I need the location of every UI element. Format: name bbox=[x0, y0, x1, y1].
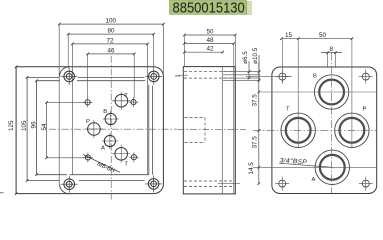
dim 8 (rear) bbox=[321, 51, 342, 67]
hidden cavity rect bbox=[185, 118, 206, 143]
dim 50 (side) bbox=[183, 34, 237, 66]
boss arc around bottom-left bolt hole bbox=[60, 184, 70, 194]
vertical face line right (plate right edge extended) bbox=[162, 24, 164, 76]
title highlight box shadow strip bbox=[247, 2, 252, 15]
port P rear bbox=[335, 113, 369, 147]
plate second outline bbox=[27, 77, 152, 180]
counterbore ext lines right bbox=[223, 72, 260, 81]
column centerline through B A bbox=[331, 53, 333, 194]
dim 15/50 (rear top) bbox=[280, 37, 353, 40]
corner hole bottom-left bbox=[275, 177, 289, 191]
side centerline bbox=[178, 129, 247, 131]
leader M6-6H bbox=[83, 155, 120, 173]
dim 42 (side) bbox=[183, 51, 224, 54]
svg-text:100: 100 bbox=[106, 18, 117, 25]
svg-text:B: B bbox=[313, 74, 317, 80]
svg-text:⌀6.5: ⌀6.5 bbox=[242, 51, 249, 64]
hole center tick top bbox=[179, 74, 188, 76]
svg-text:96: 96 bbox=[30, 121, 37, 129]
corner hole top-left bbox=[275, 70, 289, 84]
corner hole top-right bbox=[359, 70, 373, 84]
svg-text:P: P bbox=[86, 119, 90, 125]
port A rear bbox=[315, 150, 349, 184]
dim 48 (side) bbox=[183, 42, 235, 66]
vertical face line inner-left (72 ext) bbox=[71, 44, 73, 175]
leader 3/4 BSP bbox=[279, 163, 332, 167]
dim 46 bbox=[86, 53, 135, 98]
pilot hole bottom-right bbox=[129, 152, 139, 162]
vertical face line left bbox=[58, 24, 60, 184]
svg-text:48: 48 bbox=[207, 37, 215, 44]
left dim chain line (rear) bbox=[258, 62, 261, 185]
svg-text:3/4"BSP: 3/4"BSP bbox=[279, 157, 307, 166]
dim 54 line bbox=[45, 101, 84, 159]
bolt hole top-right bbox=[145, 68, 162, 85]
title highlight box bbox=[170, 1, 247, 15]
svg-text:50: 50 bbox=[207, 28, 215, 35]
bolt hole bottom-right bbox=[145, 175, 162, 192]
corner hole bottom-right bbox=[359, 177, 373, 191]
svg-text:⌀10.5: ⌀10.5 bbox=[252, 47, 259, 64]
plate third outline bbox=[37, 81, 149, 175]
ext line corner hole col bbox=[281, 39, 283, 83]
svg-text:T: T bbox=[286, 107, 290, 113]
svg-text:50: 50 bbox=[319, 32, 327, 39]
svg-text:A: A bbox=[101, 146, 105, 152]
right view outline bbox=[272, 67, 377, 194]
pilot hole top-right bbox=[129, 97, 139, 107]
dim line d10.5 bbox=[258, 55, 261, 82]
dim 100 bbox=[58, 23, 165, 26]
port T top bbox=[112, 92, 130, 110]
horizontal centerline bbox=[49, 128, 177, 130]
svg-text:A: A bbox=[312, 177, 316, 183]
svg-text:M6-6H: M6-6H bbox=[96, 161, 116, 175]
port B rear bbox=[314, 75, 348, 109]
pilot hole top-left bbox=[83, 97, 93, 107]
side inner face line (42) bbox=[221, 67, 223, 194]
boss arc around top-left bolt hole bbox=[60, 67, 70, 77]
hidden line bottom counterbore bbox=[184, 180, 234, 182]
side inner right face line bbox=[233, 67, 235, 194]
dim 80 bbox=[67, 33, 155, 69]
dim 72 bbox=[71, 43, 149, 46]
svg-text:80: 80 bbox=[108, 28, 116, 35]
pilot hole bottom-left bbox=[83, 153, 93, 163]
svg-text:14.5: 14.5 bbox=[248, 162, 255, 175]
svg-text:P: P bbox=[363, 107, 367, 113]
dim 125 ticks bbox=[15, 66, 18, 195]
svg-text:15: 15 bbox=[285, 32, 293, 39]
svg-text:46: 46 bbox=[108, 47, 116, 54]
port A bbox=[102, 133, 118, 149]
svg-text:42: 42 bbox=[207, 46, 215, 53]
dim line d6.5 bbox=[248, 61, 251, 79]
bolt hole bottom-left bbox=[61, 176, 78, 193]
svg-text:125: 125 bbox=[8, 120, 15, 131]
column line through T bbox=[297, 39, 299, 148]
dim 96 ticks bbox=[35, 79, 38, 176]
vertical centerline bbox=[110, 56, 112, 200]
svg-text:B: B bbox=[103, 109, 107, 115]
dim 105 ticks bbox=[26, 76, 29, 182]
hidden line top counterbore bbox=[184, 71, 234, 73]
vertical face line inner-right (72 ext) bbox=[147, 44, 149, 175]
svg-text:37.5: 37.5 bbox=[251, 94, 258, 107]
row line through B bbox=[259, 91, 377, 93]
svg-text:54: 54 bbox=[41, 123, 48, 131]
port T bottom bbox=[112, 145, 130, 163]
svg-text:8: 8 bbox=[330, 46, 334, 53]
svg-text:37.5: 37.5 bbox=[251, 136, 258, 149]
plate outer outline bbox=[16, 67, 163, 194]
corner holes top row line bbox=[246, 75, 292, 77]
hole center tick bottom bbox=[218, 183, 240, 185]
row centerline through T P bbox=[253, 129, 377, 131]
center row tick right of plate bbox=[175, 75, 180, 77]
svg-text:T: T bbox=[124, 161, 128, 167]
port B bbox=[103, 111, 119, 127]
svg-text:8850015130: 8850015130 bbox=[173, 0, 246, 16]
port T rear bbox=[281, 113, 315, 147]
port P bbox=[85, 120, 103, 138]
svg-text:105: 105 bbox=[21, 120, 28, 131]
bolt hole top-left bbox=[61, 68, 78, 85]
svg-text:T: T bbox=[124, 93, 128, 99]
svg-text:72: 72 bbox=[107, 37, 115, 44]
side view outline bbox=[183, 67, 235, 194]
column line through P bbox=[351, 39, 353, 148]
dim 125 arrow remnant bottom-left bbox=[0, 192, 4, 194]
row line through A bbox=[253, 166, 377, 168]
